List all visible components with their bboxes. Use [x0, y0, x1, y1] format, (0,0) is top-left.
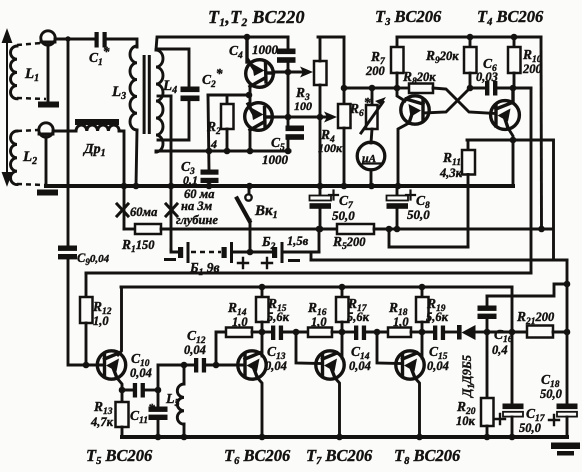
- svg-text:5,6к: 5,6к: [267, 310, 290, 324]
- junction dot R14 base tap: [213, 362, 220, 369]
- choke Dr1 core bar: [75, 119, 119, 125]
- svg-text:1,0: 1,0: [393, 315, 409, 329]
- node: antenna jack 1: [41, 31, 55, 45]
- svg-text:C90,04: C90,04: [77, 251, 110, 267]
- ground under jack1: [38, 102, 59, 108]
- svg-text:0,04: 0,04: [427, 359, 449, 373]
- wire: jack1 to C1: [55, 38, 95, 41]
- wire: C14 to T8 base node: [366, 331, 388, 334]
- junction dot x320 on bus: [317, 183, 324, 190]
- wire: bracket down to R4 top: [343, 37, 346, 104]
- capacitor C4 with riser from top line: [287, 37, 290, 49]
- resistor R1: [135, 224, 161, 234]
- wire: detector node to R21: [487, 331, 527, 334]
- wire: R4 bottom to bus: [343, 128, 346, 186]
- label C7 value with plus: [329, 191, 338, 200]
- resistor R2: [226, 95, 229, 104]
- junction dot R3/R4 wiper crossing: [317, 114, 324, 121]
- wire: x553 emitter line down: [552, 140, 555, 260]
- svg-text:1,5в: 1,5в: [287, 234, 309, 248]
- junction dot x344 on bus: [341, 183, 348, 190]
- wire: T1 emitter to T2 collector: [249, 87, 252, 103]
- svg-text:0,04: 0,04: [184, 343, 206, 357]
- svg-text:4,7к: 4,7к: [90, 415, 114, 429]
- svg-text:200: 200: [522, 62, 543, 76]
- wire: T3 emitter to bus: [398, 123, 409, 186]
- switch Vk1: [246, 183, 253, 190]
- wire: R8 to T4 base (cross): [433, 88, 495, 114]
- potentiometer R4: [338, 104, 351, 128]
- capacitor C5 plates: [286, 126, 305, 132]
- resistor R14: [226, 328, 252, 338]
- svg-text:1,0: 1,0: [93, 314, 109, 328]
- svg-text:1,0: 1,0: [311, 315, 327, 329]
- capacitor C13 plates: [271, 326, 275, 341]
- battery B1: [171, 250, 179, 252]
- resistor R20: [486, 332, 489, 398]
- wire: C16 top line y296 to right rail: [487, 284, 567, 296]
- transistor T1: [246, 37, 274, 87]
- wire: L4 upper tap to ground drop: [158, 95, 171, 98]
- junction dot L5 top: [181, 362, 188, 369]
- capacitor C15 plates: [433, 326, 437, 341]
- wire: dashed link L1 top to jack1: [17, 43, 41, 45]
- wire: T5 emitter to C10: [117, 378, 133, 390]
- resistor R10: [513, 37, 516, 47]
- svg-text:T8 BC206: T8 BC206: [394, 446, 461, 467]
- transistor T8: [396, 351, 424, 379]
- wire: T8 emitter to ground bus: [415, 378, 420, 437]
- antenna jack 2: [39, 123, 53, 137]
- wire: C8 from bus to y229: [396, 186, 399, 196]
- wire: C15 to diode: [445, 331, 458, 334]
- wire: dashed link L2 top to jack2: [17, 130, 38, 131]
- wire: jack2 to choke: [53, 130, 76, 133]
- capacitor C12 plates: [194, 358, 198, 373]
- svg-text:T5 BC206: T5 BC206: [86, 446, 153, 467]
- wire: C10 right to node x158: [145, 389, 158, 392]
- junction dot T1 collector on top line: [244, 34, 251, 41]
- wire: x209 drop from y95 to C3: [208, 95, 209, 170]
- capacitor C3 plates: [201, 170, 219, 175]
- junction dot C3 on bus: [206, 183, 213, 190]
- capacitor C16 with riser: [486, 296, 489, 306]
- junction dot C5 on y151: [285, 148, 292, 155]
- svg-text:4,3к: 4,3к: [439, 166, 463, 180]
- span arrow for L1/L2 antenna coils: [3, 31, 11, 184]
- wire: L4 top to oscillator top line: [156, 37, 246, 50]
- svg-text:T6 BC206: T6 BC206: [224, 446, 291, 467]
- svg-text:T3 BC206: T3 BC206: [375, 7, 442, 28]
- svg-text:1000: 1000: [252, 42, 279, 57]
- battery polarity signs: [164, 258, 176, 261]
- wire: dashed link L1 bottom to jack1 ground: [17, 98, 46, 99]
- resistor R15 from y287: [261, 287, 264, 297]
- wire: L5 bottom to ground bus: [183, 424, 186, 437]
- junction dot C4/C5 node at T1 feedback: [285, 69, 292, 76]
- capacitor C11* plates: [149, 407, 168, 412]
- wire: signal line x68 from antenna down to C9: [67, 39, 70, 246]
- wire: x158 node up to y365 line and down through C11: [157, 365, 160, 390]
- svg-text:0,1: 0,1: [183, 173, 198, 187]
- transistor T5: [97, 351, 125, 379]
- junction dot T4 emitter line: [510, 137, 517, 144]
- resistor R5: [337, 224, 374, 234]
- diode D1: [457, 325, 462, 340]
- junction dot T6 collector node: [259, 329, 266, 336]
- wire: B2 riser to y229: [318, 229, 321, 252]
- svg-text:T7 BC206: T7 BC206: [306, 446, 373, 467]
- wire: T4 emitter down to bus corner: [508, 128, 513, 186]
- capacitor C17 plates: [503, 404, 524, 410]
- svg-text:Д1Д9Б5: Д1Д9Б5: [460, 355, 476, 398]
- rail y260 to output stage: [311, 259, 567, 262]
- ground bus y437: [122, 435, 567, 439]
- wire: jack1 to ground: [47, 45, 50, 101]
- variable resistor R6*: [371, 88, 374, 105]
- wire: L4 bottom line y151: [156, 151, 290, 152]
- wire: R9 bottom to C6 node: [469, 73, 472, 88]
- resistor R17 from y287: [341, 287, 344, 297]
- wire: L3 bottom to common bus: [136, 130, 137, 186]
- node dot at x68 on jack1 wire: [65, 36, 70, 41]
- wire: T5 collector from y287: [118, 287, 122, 355]
- junction dot L3 bottom on bus: [133, 183, 140, 190]
- wire: L4 top to C2: [157, 49, 189, 87]
- wire: jack2 down to common bus: [45, 137, 48, 186]
- svg-text:0,4: 0,4: [492, 343, 508, 357]
- wire: C2 bottom to L4 tap: [158, 101, 189, 140]
- junction dot R7/R8 node: [394, 85, 401, 92]
- transistor T6: [238, 351, 266, 379]
- wire: dashed link L2 bottom: [17, 184, 45, 185]
- capacitor C14 plates: [354, 326, 358, 341]
- svg-text:1,0: 1,0: [232, 315, 248, 329]
- transistor T4: [491, 88, 520, 129]
- junction dot y95 at T1/T2 link: [246, 92, 253, 99]
- resistor R9: [469, 37, 472, 47]
- wire: y365 interstage line T5 to C12: [158, 364, 193, 367]
- wire: T3 base to C6 node (cross): [424, 89, 469, 113]
- svg-text:5,6к: 5,6к: [426, 310, 449, 324]
- svg-text:0,04: 0,04: [130, 366, 152, 380]
- junction dot x209 on y151 line: [206, 148, 213, 155]
- resistor R18: [388, 328, 411, 338]
- wire: L5 drop: [183, 365, 186, 384]
- resistor R16: [308, 328, 332, 338]
- wire: R7 bottom to T3 collector: [397, 73, 405, 101]
- wire: C5 bottom to y151: [287, 140, 290, 151]
- wire: R6 bottom to meter: [371, 129, 372, 143]
- ground symbol bottom right: [551, 443, 580, 450]
- resistor R11: [467, 140, 470, 150]
- junction dot x171 on common bus: [168, 183, 175, 190]
- wire: meter to bus: [370, 170, 373, 186]
- svg-text:1000: 1000: [262, 152, 289, 167]
- capacitor C2* plates: [181, 87, 200, 93]
- junction dots on y229: [316, 226, 323, 233]
- transistor T3: [401, 96, 429, 124]
- wire: T7 base drop: [296, 332, 321, 364]
- wire: C12 to T6 base: [206, 364, 244, 367]
- coil L1: [11, 46, 17, 99]
- svg-text:50,0: 50,0: [519, 421, 542, 435]
- svg-text:4: 4: [210, 137, 217, 151]
- svg-text:5,6к: 5,6к: [347, 310, 370, 324]
- label C8 value with plus: [406, 191, 415, 200]
- wire: R3 bottom down to bus: [319, 85, 322, 186]
- resistor R8: [397, 87, 409, 90]
- junction dot T2 on y151: [247, 148, 254, 155]
- wire: C9 to T5 base: [68, 259, 103, 365]
- junction dot R2 on y151: [224, 148, 231, 155]
- potentiometer R3: [314, 61, 327, 85]
- wire: y88 line T3 base bias: [344, 87, 397, 90]
- capacitor C10 plates: [133, 383, 137, 398]
- wire: T2 to R4 wiper with arrow: [272, 116, 329, 119]
- wire: emitter line y140: [467, 139, 553, 142]
- wire: C4 bottom to C5 top: [287, 63, 290, 126]
- transistor T7: [316, 351, 344, 379]
- coil L3: [130, 46, 137, 130]
- wire: bracket top line R3-R4: [318, 36, 344, 39]
- resistor R12: [80, 297, 93, 323]
- svg-text:0,04: 0,04: [265, 359, 287, 373]
- wire: R12 from y273: [85, 273, 88, 297]
- svg-text:0,03: 0,03: [476, 70, 498, 84]
- coil L4: [156, 50, 163, 152]
- battery B2: [272, 247, 277, 258]
- capacitor C18 plates: [557, 404, 578, 410]
- rail y273 supply to bottom amp: [86, 272, 531, 275]
- wire: R14 riser: [216, 332, 226, 365]
- junction dot x344 on y88 line: [341, 85, 348, 92]
- wire: B2 minus step to y260 rail: [310, 252, 313, 260]
- wire: T1 to R3 wiper with arrow: [273, 71, 305, 74]
- wire: C3 to bus: [208, 183, 211, 186]
- capacitor C9 plates: [58, 246, 77, 251]
- svg-text:200: 200: [365, 64, 386, 78]
- rail y287 collector rail bottom amp: [121, 286, 512, 289]
- svg-text:10к: 10к: [456, 414, 476, 428]
- wire: y95 line: [208, 94, 249, 97]
- wire: T2 emitter down to y151: [249, 130, 252, 151]
- wire: C11 to ground bus: [157, 420, 160, 437]
- svg-text:50,0: 50,0: [332, 208, 355, 223]
- wire: top line right section T3/T4 collectors: [397, 36, 541, 39]
- wire: C13 to T7 base node: [283, 331, 308, 334]
- svg-text:100к: 100к: [318, 141, 343, 155]
- wire: C14 node: [342, 331, 354, 334]
- plus sign C17: [495, 414, 505, 424]
- meter uA: [357, 142, 385, 170]
- current marker x on battery drop: [166, 204, 177, 216]
- wire: T6 emitter to ground bus: [258, 378, 263, 437]
- wire: C6 right to T4 collector node: [498, 87, 532, 90]
- wire: diode to detector node: [475, 331, 487, 334]
- wire: T7 collector: [341, 332, 344, 358]
- ground on common bus below jack2: [37, 190, 58, 196]
- coil L5: [177, 384, 184, 424]
- battery feed line y229 with R1 and R5: [124, 228, 135, 231]
- transformer core: [143, 55, 146, 134]
- capacitor C1* plates: [95, 32, 99, 48]
- coil L2: [11, 131, 17, 185]
- wire: C7 from bus to y229: [319, 186, 322, 196]
- junction dot C5 node at T2 feedback: [285, 114, 292, 121]
- wire: C1 to L3 top: [107, 39, 137, 47]
- choke Dr1 winding: [76, 125, 119, 131]
- svg-text:60ма: 60ма: [130, 205, 157, 219]
- current marker x on R1 drop: [117, 204, 128, 216]
- svg-text:100: 100: [294, 99, 312, 113]
- svg-text:глубине: глубине: [176, 213, 218, 227]
- wire: R3 top to bracket: [319, 37, 322, 61]
- svg-text:0,04: 0,04: [349, 359, 371, 373]
- capacitor C6 plates: [470, 87, 485, 90]
- common bus y186: [46, 184, 513, 188]
- wire: C13 node: [262, 331, 271, 334]
- wire: right rail x567 from y260 down through C18 to ground: [566, 260, 569, 404]
- resistor R7: [396, 37, 399, 47]
- wire: C15 node: [422, 331, 433, 334]
- wire: T7 emitter to ground bus: [335, 378, 340, 437]
- svg-text:на 3м: на 3м: [181, 199, 213, 213]
- resistor R13: [121, 390, 124, 402]
- transistor T2: [245, 103, 273, 131]
- plus sign C18: [549, 415, 559, 425]
- resistor R21: [527, 326, 553, 338]
- wire: x531 T4 collector node down to y273 bus: [530, 88, 533, 273]
- resistor R19 from y287: [421, 287, 424, 297]
- wire: y247 link to battery line: [389, 229, 468, 247]
- wire: right border x542 top line down: [540, 37, 543, 229]
- wire: switch to battery plus: [249, 220, 252, 252]
- wire: ground drop x171 from L4 tap through bus to battery minus: [170, 96, 173, 250]
- wire: R11 bottom down to y247: [467, 175, 470, 248]
- wire: T8 base drop: [377, 332, 401, 364]
- wire: x512 from y287 rail down through C17 to ground: [511, 287, 514, 404]
- svg-text:T4 BC206: T4 BC206: [477, 7, 544, 28]
- wire: T8 collector: [421, 332, 424, 358]
- wire: top line from T1 junction to C4: [248, 36, 288, 39]
- wire: choke to R1 drop x124: [119, 131, 124, 229]
- junction dot x124 on common bus: [121, 183, 128, 190]
- svg-text:50,0: 50,0: [407, 207, 430, 222]
- wire: T6 collector: [261, 332, 264, 356]
- svg-text:50,0: 50,0: [540, 387, 563, 401]
